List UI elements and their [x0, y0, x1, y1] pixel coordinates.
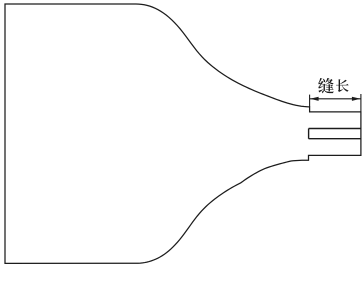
label 缝长 (slot length): [318, 78, 348, 93]
dimension line: [310, 98, 361, 100]
dimension extension line right: [360, 94, 362, 112]
dimension arrowhead left: [310, 97, 319, 101]
slot rectangle: [309, 129, 361, 139]
dimension arrowhead right: [352, 97, 361, 101]
dimension extension line left: [309, 95, 311, 107]
